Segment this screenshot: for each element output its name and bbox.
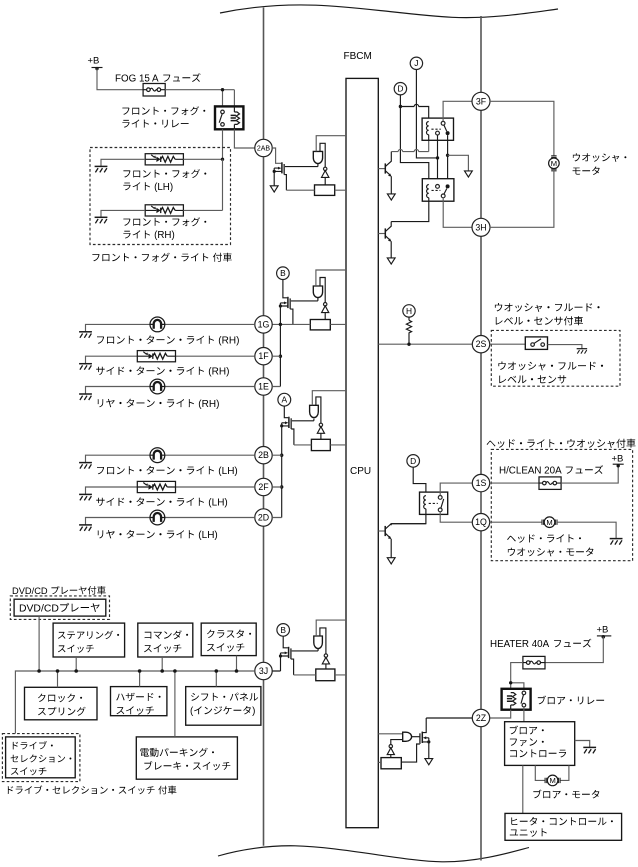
transistor Q2 — [378, 233, 385, 235]
svg-text:+B: +B — [88, 56, 100, 67]
wire inverter to AND — [320, 278, 325, 303]
fog lamp RH — [145, 205, 183, 216]
wire relay to lamps — [222, 129, 224, 159]
node B — [277, 267, 290, 280]
svg-text:2B: 2B — [258, 450, 269, 460]
svg-text:1G: 1G — [258, 319, 270, 329]
node 1F junction — [279, 355, 282, 358]
wire relay1 NO down — [447, 135, 449, 184]
label commander sw line1 — [145, 630, 189, 639]
wire resistor to CPU — [294, 444, 346, 446]
node FET source tie — [279, 654, 282, 657]
LED side turn RH — [137, 351, 175, 362]
wire shift panel to bus — [215, 671, 217, 687]
svg-text:2F: 2F — [258, 482, 269, 492]
motor washer — [549, 156, 560, 171]
label cluster sw line1 — [207, 630, 251, 638]
label blower controller line2 — [510, 738, 544, 746]
svg-text:2D: 2D — [258, 513, 269, 523]
clock spring box — [25, 687, 98, 720]
wire gate to AND output — [285, 164, 318, 167]
label parking brake line2 — [144, 761, 230, 770]
FBCM module CPU box — [346, 78, 378, 827]
relay1 coil — [427, 122, 429, 135]
node FET source tie — [427, 740, 430, 743]
ground FET fog — [270, 186, 278, 192]
resistor turn RH sense — [310, 320, 330, 330]
wire gate to AND — [291, 297, 318, 301]
bulb front turn LH — [150, 448, 165, 463]
label heater control line2 — [510, 828, 547, 836]
commander switch box — [138, 623, 193, 657]
relay2 upper-right contact — [446, 184, 450, 188]
caption fog box — [92, 253, 232, 262]
resistor fog sense — [315, 185, 335, 196]
wire 1G line through resistor to CPU — [272, 323, 346, 325]
wire motor to ground — [557, 522, 616, 538]
shift panel box — [186, 687, 261, 726]
node FET source tie — [279, 304, 282, 307]
relay1 NC contact — [436, 131, 440, 135]
svg-text:FOG 15 A: FOG 15 A — [115, 74, 159, 85]
ground Q1 — [387, 194, 395, 200]
svg-text:(LH): (LH) — [154, 182, 173, 193]
wire gate-sense down — [291, 659, 294, 675]
wire CPU to AND input (2Z driver) — [378, 733, 402, 735]
label blower relay — [538, 696, 604, 705]
dashed box fog lights option — [90, 148, 231, 245]
dashed box DVD/CD player option — [10, 596, 109, 620]
wire inverter to AND input — [320, 143, 325, 167]
label clock spring line2 — [38, 707, 86, 716]
svg-text:3F: 3F — [476, 96, 487, 106]
wire parking brake to bus — [174, 671, 176, 737]
inverter turn LH — [319, 423, 322, 426]
svg-text:(RH): (RH) — [154, 230, 175, 241]
connector 1S — [472, 474, 489, 491]
MOSFET turn LH driver — [288, 417, 290, 428]
label washer motor line2 — [573, 167, 600, 175]
wire fuse to relay — [511, 663, 524, 693]
wire resistor to gate — [401, 744, 420, 762]
wire D to relay coil — [413, 467, 426, 495]
label heater control line1 — [511, 817, 613, 825]
label relay line1 — [122, 106, 205, 115]
wire gate to AND — [292, 649, 319, 651]
label drive selection line3 — [11, 767, 47, 775]
wire 2S to sensor — [490, 343, 526, 345]
wire washer motor to 3H — [490, 171, 554, 228]
wire resistor to CPU — [294, 674, 346, 676]
caption level sensor line1 — [495, 303, 600, 312]
svg-text:D: D — [410, 456, 416, 466]
connector 1E — [255, 378, 272, 395]
wire B to FET drain — [283, 280, 287, 298]
wire resistor to CPU — [286, 189, 346, 191]
AND gate 3J — [314, 636, 323, 649]
connector 3J — [255, 662, 272, 679]
wire coil to 2Z — [490, 710, 511, 718]
relay blade — [441, 499, 444, 508]
relay switch contacts — [221, 110, 225, 114]
wire +B to fuse — [545, 637, 603, 663]
resistor 3J sense — [316, 669, 335, 681]
connector 1F — [255, 348, 272, 365]
label drive selection line1 — [13, 741, 53, 749]
ground rear turn LH — [79, 525, 92, 531]
MOSFET 2Z driver (mirrored) — [419, 733, 421, 744]
node 2B junction — [280, 454, 283, 457]
wire hazard to bus — [139, 671, 141, 687]
label cluster sw line2 — [207, 643, 244, 651]
fog lamp LH — [145, 154, 183, 165]
label fog LH line1 — [123, 169, 206, 178]
svg-text:2Z: 2Z — [476, 713, 487, 723]
relay1 NO contact — [446, 131, 450, 135]
wire 3F to washer motor — [490, 101, 554, 156]
LED side turn LH — [137, 481, 175, 492]
svg-text:FBCM: FBCM — [344, 51, 372, 62]
connector 2AB — [255, 139, 272, 156]
node D junction — [399, 105, 402, 108]
svg-text:1Q: 1Q — [475, 517, 487, 527]
label steering sw line2 — [58, 645, 94, 653]
relay1 dashed link — [431, 128, 440, 130]
relay coil — [424, 496, 426, 509]
transistor Q1 — [378, 168, 385, 170]
wire FET source column to turn lamps — [279, 303, 281, 387]
wire 1S to fuse — [490, 482, 539, 484]
svg-text:1E: 1E — [258, 382, 269, 392]
wire clock spring to bus — [57, 671, 59, 687]
wire 2B row — [86, 455, 255, 462]
resistor turn LH sense — [311, 439, 330, 450]
wire A to FET drain — [284, 406, 288, 418]
wire controller to blower motor — [535, 765, 569, 780]
node A — [278, 393, 291, 406]
relay dashed link — [429, 502, 438, 504]
label steering sw line1 — [58, 631, 119, 640]
relay front fog light (bold box) — [215, 106, 243, 129]
wire FET source to ground — [428, 738, 430, 759]
node relay NO junction — [446, 154, 449, 157]
DVD/CD player box — [14, 599, 106, 616]
label shift panel line1 — [191, 693, 258, 701]
torn page edge top — [220, 5, 558, 18]
wire H to resistor — [408, 317, 410, 320]
relay washer 1 box — [422, 118, 453, 140]
wire lamp RH left to ground — [101, 210, 145, 217]
relay blower (bold box) — [502, 689, 531, 710]
wire lamp LH to junction — [183, 158, 222, 160]
wire 2F row — [86, 487, 255, 494]
wire gate-sense down — [291, 429, 294, 445]
label blower motor — [533, 790, 599, 799]
label commander sw line2 — [144, 644, 181, 652]
svg-text:DVD/CD: DVD/CD — [12, 586, 48, 596]
bulb rear turn RH — [150, 379, 165, 394]
wire CPU to AND input — [312, 391, 346, 406]
wire 1F row — [86, 356, 255, 363]
blower fan controller box — [505, 722, 575, 766]
wire 1E to column — [272, 356, 280, 386]
label hl washer motor line2 — [508, 548, 594, 557]
heater control unit box — [505, 813, 622, 840]
dashed box drive selection option — [2, 734, 80, 782]
relay coil — [233, 106, 235, 129]
inverter 3J — [324, 654, 327, 657]
connector 2D — [255, 509, 272, 526]
connector 1Q — [472, 514, 489, 531]
wire 2AB to FET drain — [272, 148, 281, 163]
ground fog RH — [95, 217, 108, 223]
wire 1S to relay contact — [440, 483, 472, 495]
wire cluster to bus — [236, 656, 238, 671]
ground front turn RH — [79, 332, 92, 338]
wire inverter to AND — [316, 397, 321, 423]
inverter turn RH — [324, 303, 327, 306]
node junction fuse/relay — [221, 88, 224, 91]
ground Q2 — [387, 258, 395, 264]
wire 1E row — [86, 387, 255, 394]
fuse H/CLEAN 20A — [539, 477, 561, 490]
ground rear turn RH — [79, 394, 92, 400]
blower relay coil — [507, 693, 516, 705]
node D headlight washer — [407, 455, 420, 468]
svg-text:2AB: 2AB — [257, 146, 271, 153]
ground relay branch — [465, 171, 473, 177]
bulb rear turn LH — [150, 510, 165, 525]
wire relay contact to 1Q — [440, 512, 472, 522]
wire sensor to ground — [548, 345, 582, 349]
relay1 blade — [444, 125, 447, 131]
svg-text:3H: 3H — [475, 222, 486, 232]
wire commander to bus — [161, 657, 163, 671]
label relay line2 — [122, 120, 188, 128]
right connector rail — [480, 16, 482, 861]
svg-text:J: J — [414, 58, 418, 68]
resistor H pullup — [406, 320, 411, 344]
label hazard sw line1 — [116, 693, 160, 701]
svg-text:): ) — [252, 706, 255, 717]
ground controller — [583, 747, 596, 753]
wire 1Q to motor — [490, 521, 543, 523]
svg-text:(LH): (LH) — [208, 498, 227, 509]
transistor Q3 — [378, 530, 385, 532]
torn page edge bottom — [218, 846, 529, 862]
cluster switch box — [201, 623, 256, 656]
connector 3F — [472, 92, 490, 110]
blower relay contacts — [522, 691, 526, 695]
wire FET drain to 2Z — [423, 718, 472, 733]
svg-text:1S: 1S — [476, 478, 487, 488]
ground headlight washer motor — [610, 539, 623, 545]
AND gate turn RH — [313, 286, 322, 298]
node 2F junction — [280, 485, 283, 488]
svg-text:DVD/CD: DVD/CD — [19, 604, 59, 615]
svg-text:A: A — [282, 395, 288, 405]
svg-text:(RH): (RH) — [218, 336, 239, 347]
relay washer 2 box — [422, 179, 454, 202]
wire AND to gate — [412, 736, 420, 738]
svg-text:(LH): (LH) — [198, 530, 217, 541]
wire gate-sense to resistor — [284, 175, 286, 191]
label level sensor line1 — [498, 362, 603, 371]
wire D junction to relay1 coil (hop over J) — [400, 107, 428, 122]
wire steering to bus — [75, 657, 77, 671]
node bus junctions — [37, 669, 41, 673]
wire CPU to 2S — [378, 343, 472, 345]
svg-text:(RH): (RH) — [198, 399, 219, 410]
wire CPU output to AND input — [316, 136, 346, 152]
inverter 2Z driver — [389, 745, 392, 748]
svg-text:+B: +B — [612, 454, 624, 465]
AND gate turn LH — [310, 405, 319, 417]
parking brake switch box — [136, 737, 237, 779]
ground Q3 — [387, 558, 395, 564]
wire relay1 NC down — [437, 135, 439, 185]
steering switch box — [53, 623, 125, 657]
svg-text:B: B — [280, 268, 286, 278]
label parking brake line1 — [140, 748, 214, 757]
label hl washer motor line1 — [507, 534, 581, 542]
wire 1G row — [86, 324, 255, 331]
fuse HEATER 40A — [523, 656, 545, 669]
inverter fog — [324, 167, 327, 170]
wire relay contact to controller — [523, 707, 525, 722]
washer fluid level sensor switch — [525, 337, 547, 350]
node H junction — [407, 343, 410, 346]
wire CPU to AND input — [316, 620, 346, 636]
svg-text:1F: 1F — [258, 351, 269, 361]
ground side turn LH — [79, 494, 92, 500]
wire Q1 collector to relay1 coil (hops over D and J) — [391, 140, 428, 151]
relay headlight washer box — [420, 492, 448, 514]
connector 2Z — [472, 709, 489, 726]
svg-text:H/CLEAN 20A: H/CLEAN 20A — [499, 466, 562, 477]
node H — [403, 305, 415, 317]
ground sensor — [577, 349, 587, 354]
wire DVD to bus — [38, 616, 40, 671]
dashed box headlight washer option — [491, 449, 632, 560]
bulb front turn RH — [150, 317, 165, 332]
relay2 common contact — [441, 194, 445, 198]
ground 2Z driver — [425, 759, 433, 765]
wire B to FET drain — [283, 636, 288, 648]
svg-text:(LH): (LH) — [218, 466, 237, 477]
caption headlight washer — [487, 439, 636, 448]
label hazard sw line2 — [117, 706, 154, 714]
node FET source tie — [280, 424, 283, 427]
label blower controller line3 — [510, 749, 566, 757]
wire 3F to relay1 common — [443, 101, 472, 121]
relay2 dashed link — [432, 189, 441, 191]
connector 2F — [255, 478, 272, 495]
MOSFET turn RH driver — [287, 297, 289, 308]
relay2 upper-left contact — [436, 185, 440, 189]
connector 3H — [472, 218, 490, 236]
svg-text:D: D — [397, 84, 403, 94]
wire lamp LH left to ground — [101, 159, 145, 166]
motor blower — [545, 775, 560, 786]
resistor 2Z sense — [381, 758, 401, 769]
+B supply headlight washer — [617, 464, 620, 467]
wire controller to ground — [575, 741, 590, 748]
hazard switch box — [111, 687, 167, 716]
caption level sensor line2 — [496, 316, 583, 325]
svg-text:H: H — [406, 306, 412, 316]
svg-text:3J: 3J — [259, 666, 268, 676]
node FET source tie — [273, 170, 276, 173]
svg-text:+B: +B — [597, 625, 609, 636]
svg-text:2S: 2S — [476, 339, 487, 349]
wire gate to AND — [292, 419, 314, 421]
AND gate fog — [313, 151, 322, 163]
connector 2B — [255, 447, 272, 464]
wire J to relay contacts — [416, 70, 437, 158]
label level sensor line2 — [499, 375, 566, 383]
wire inverter to AND — [320, 628, 326, 654]
wire lamp RH to junction — [183, 159, 222, 210]
svg-text:B: B — [280, 625, 286, 635]
relay2 coil — [427, 185, 429, 198]
caption drive selection — [8, 785, 177, 794]
wire FET source to ground — [273, 168, 275, 186]
wire gate-sense down — [290, 309, 293, 324]
wire relay2 common to 3H — [443, 198, 472, 228]
node B bottom — [277, 624, 290, 637]
wire FET source column to turn lamps LH — [281, 423, 283, 518]
MOSFET 3J driver — [288, 647, 290, 658]
node 1G junction — [279, 323, 282, 326]
motor headlight washer — [542, 517, 557, 528]
fuse FOG 15A — [143, 84, 165, 97]
label fog RH line1 — [123, 217, 206, 226]
label washer motor line1 — [573, 153, 627, 162]
wire resistor to CPU — [378, 761, 381, 763]
MOSFET fog driver — [281, 162, 283, 173]
wire inverter to AND — [391, 740, 403, 745]
node D — [394, 83, 406, 95]
node junction fog lamps — [221, 158, 224, 161]
label clock spring line1 — [38, 694, 82, 703]
svg-text:CPU: CPU — [350, 466, 371, 477]
relay lower contact — [438, 508, 442, 512]
node junction relay feed — [509, 681, 512, 684]
ground front turn LH — [79, 463, 92, 469]
wire junction to ground — [448, 155, 469, 171]
relay2 blade — [444, 189, 447, 195]
connector 2S — [472, 336, 489, 353]
wire CPU to AND input — [316, 270, 346, 286]
relay upper contact — [438, 496, 442, 500]
relay1 common contact — [441, 121, 445, 125]
svg-text:HEATER 40A: HEATER 40A — [490, 639, 550, 650]
drive selection switch box — [6, 737, 76, 778]
ground side turn RH — [79, 364, 92, 370]
label blower controller line1 — [510, 726, 544, 735]
wire FET source to 3J — [272, 653, 280, 671]
node J junction — [436, 156, 439, 159]
wire controller to heater control unit — [522, 765, 524, 813]
label drive selection line2 — [11, 755, 72, 763]
AND gate 2Z driver — [403, 732, 412, 741]
node J — [410, 57, 422, 69]
wire +B to fuse — [97, 69, 143, 90]
wire switch bus — [15, 671, 254, 734]
connector 1G — [255, 316, 272, 333]
wire D down — [400, 95, 428, 185]
